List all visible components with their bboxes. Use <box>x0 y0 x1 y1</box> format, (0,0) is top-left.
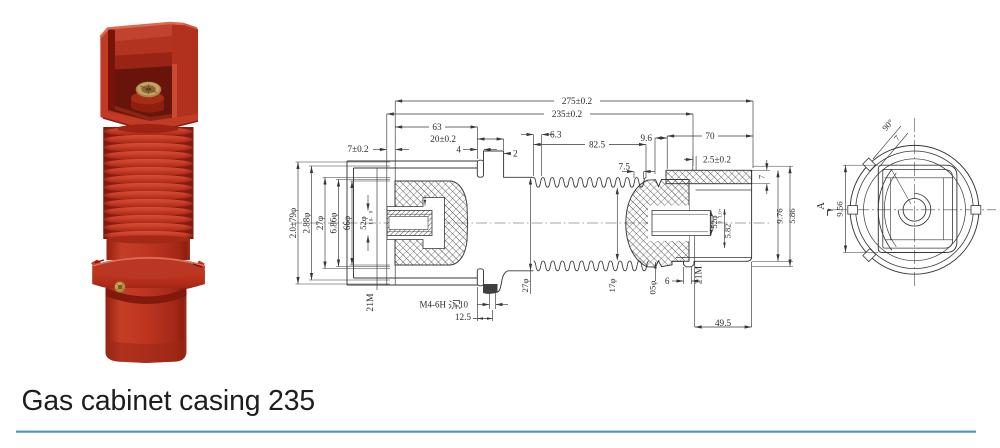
svg-text:1.0-: 1.0- <box>369 217 375 225</box>
svg-text:70: 70 <box>705 131 715 141</box>
svg-text:9.6: 9.6 <box>641 133 653 143</box>
svg-text:0: 0 <box>719 220 724 223</box>
svg-text:4: 4 <box>456 145 461 155</box>
svg-text:66φ: 66φ <box>342 216 352 230</box>
svg-text:1.0+: 1.0+ <box>719 208 724 217</box>
svg-text:0: 0 <box>369 210 375 213</box>
svg-text:21M: 21M <box>365 293 376 312</box>
svg-text:05φ: 05φ <box>648 281 658 295</box>
svg-text:6.3: 6.3 <box>550 129 562 139</box>
svg-text:2.88φ: 2.88φ <box>301 213 311 234</box>
svg-text:2.0±79φ: 2.0±79φ <box>288 208 298 238</box>
svg-text:12.5: 12.5 <box>455 312 471 322</box>
svg-text:6: 6 <box>665 276 670 286</box>
svg-text:235±0.2: 235±0.2 <box>552 109 583 119</box>
svg-text:6.86φ: 6.86φ <box>328 213 338 234</box>
svg-text:49.5: 49.5 <box>715 318 731 328</box>
svg-text:2.5±0.2: 2.5±0.2 <box>703 154 731 164</box>
svg-text:63: 63 <box>432 122 442 132</box>
svg-text:5.86: 5.86 <box>787 208 797 224</box>
svg-text:82.5: 82.5 <box>589 140 605 150</box>
svg-text:10: 10 <box>459 300 469 310</box>
svg-text:21M: 21M <box>694 265 705 284</box>
svg-text:275±0.2: 275±0.2 <box>562 96 593 106</box>
svg-text:9.56: 9.56 <box>835 201 845 217</box>
svg-text:90°: 90° <box>880 117 896 133</box>
svg-text:7: 7 <box>756 174 766 179</box>
svg-text:5.82: 5.82 <box>724 224 733 239</box>
svg-text:52φ: 52φ <box>710 215 719 228</box>
svg-text:Gas cabinet casing 235: Gas cabinet casing 235 <box>22 384 316 416</box>
svg-text:M4-6H: M4-6H <box>420 300 447 310</box>
svg-text:27φ: 27φ <box>315 216 325 230</box>
svg-text:7.5: 7.5 <box>619 162 631 172</box>
svg-text:52φ: 52φ <box>358 216 368 230</box>
svg-text:2: 2 <box>513 148 518 158</box>
svg-text:A: A <box>816 202 827 210</box>
svg-text:9.76: 9.76 <box>775 208 785 224</box>
svg-text:17φ: 17φ <box>607 279 617 293</box>
svg-text:7±0.2: 7±0.2 <box>347 144 369 154</box>
svg-text:27φ: 27φ <box>520 279 530 293</box>
svg-text:20±0.2: 20±0.2 <box>430 134 456 144</box>
